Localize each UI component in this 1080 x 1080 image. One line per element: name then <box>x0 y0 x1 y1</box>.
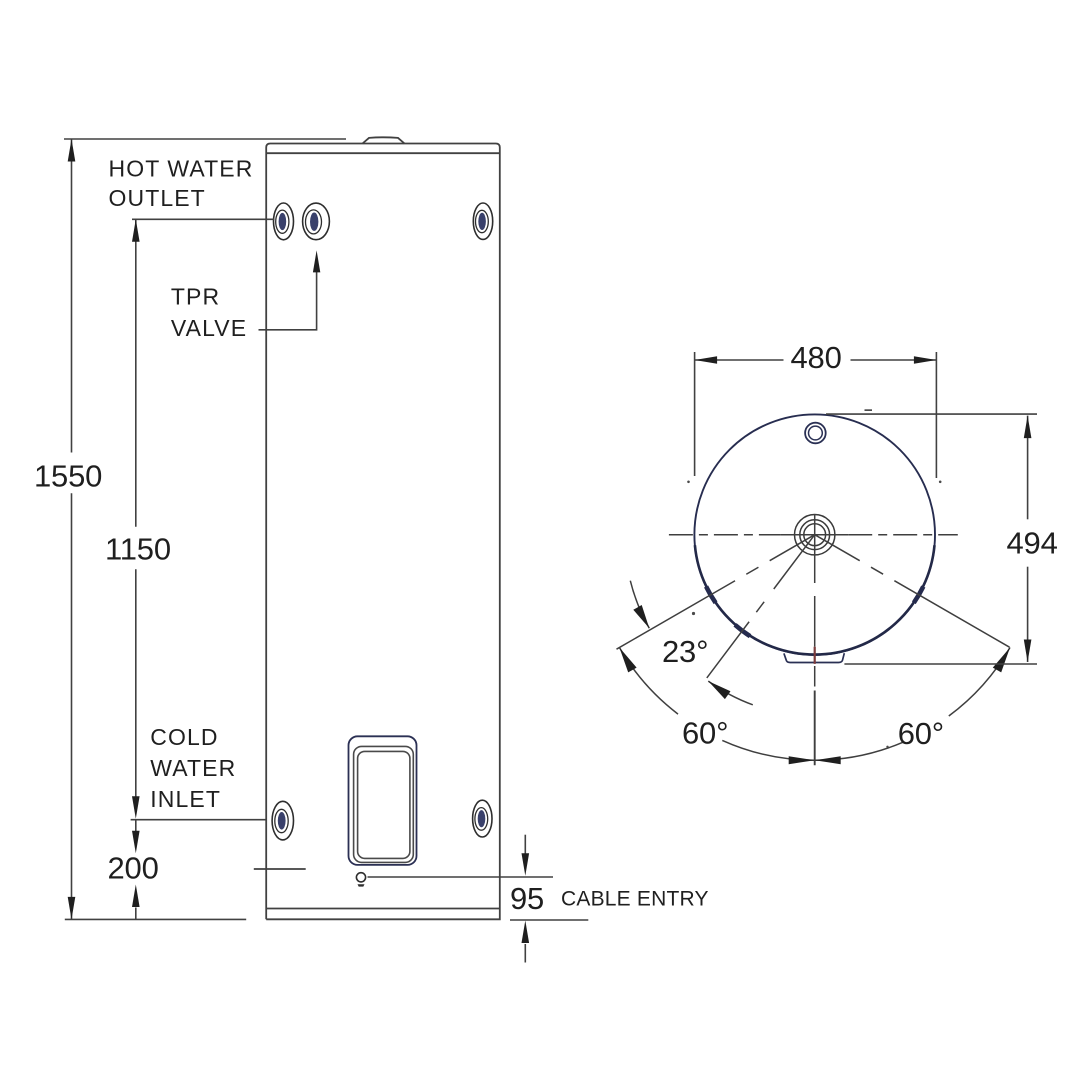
thicker lower rim arc <box>695 545 935 654</box>
cold water inlet leader <box>131 819 267 821</box>
right 60 deg line (R1) <box>815 535 1010 648</box>
svg-text:TPR: TPR <box>171 283 220 309</box>
tank bottom rim line <box>266 908 500 910</box>
480 extension lines <box>694 352 696 476</box>
anode line 23 deg (L2) <box>707 535 815 678</box>
vertex arrow right <box>815 756 841 764</box>
23 arc arrow upper <box>633 605 649 628</box>
base skirt bump <box>784 653 844 662</box>
1150 bottom arrow <box>132 796 140 819</box>
base extension right of tank <box>510 919 588 921</box>
23 arc outside upper <box>630 581 649 629</box>
svg-text:494: 494 <box>1007 525 1058 560</box>
bottom right fitting F5 <box>473 800 492 837</box>
svg-text:COLD: COLD <box>150 724 218 750</box>
arrow at right 60 line end <box>993 648 1010 673</box>
TPR arrow <box>313 250 320 272</box>
svg-text:95: 95 <box>510 881 544 916</box>
svg-text:HOT WATER: HOT WATER <box>109 156 254 182</box>
vertical crosshair through center <box>814 514 816 583</box>
left 60 arc upper segment <box>619 648 678 715</box>
svg-text:CABLE ENTRY: CABLE ENTRY <box>561 888 709 911</box>
maroon tick at skirt center <box>814 647 816 664</box>
svg-text:1150: 1150 <box>105 532 171 567</box>
fitting boss on circle at left 60 deg <box>706 587 716 603</box>
480 left arrow <box>695 356 718 364</box>
fitting boss on circle at 23 deg line <box>735 625 750 636</box>
200 upper arrow (points down to text) <box>132 831 140 854</box>
fitting boss on circle at right 60 deg <box>914 587 924 603</box>
cable entry symbol <box>356 873 553 887</box>
svg-text:1550: 1550 <box>34 459 102 494</box>
svg-text:23°: 23° <box>662 634 708 669</box>
CAD stray dots / dash specks <box>687 409 941 748</box>
vertex arrow left <box>789 756 815 764</box>
tank top seam line <box>266 152 500 154</box>
angle dimension arcs <box>619 581 1010 761</box>
svg-text:60°: 60° <box>682 716 728 751</box>
TPR valve fitting F2 <box>303 203 330 240</box>
494 bottom arrow <box>1024 640 1032 663</box>
1150 dimension line <box>135 219 137 526</box>
95 bottom arrow <box>522 921 530 944</box>
vertical centerline below circle <box>814 596 816 647</box>
95 top arrow <box>522 853 530 876</box>
left 60 deg line (L1) <box>617 535 815 650</box>
95 top arrow stem <box>524 835 526 854</box>
anode weld tick on left edge <box>254 868 306 870</box>
1550 top arrow <box>68 139 76 162</box>
svg-text:INLET: INLET <box>150 786 221 812</box>
494 extension lines <box>826 413 1037 415</box>
cold water inlet fitting F4 <box>272 801 293 840</box>
1550 top extension line <box>64 138 346 140</box>
svg-text:OUTLET: OUTLET <box>109 185 206 211</box>
480 dimension <box>695 352 937 478</box>
tank top-view circle <box>694 414 935 662</box>
1550 dimension line <box>71 139 73 453</box>
tank top TPR dome bump <box>363 137 405 143</box>
1150 top arrow <box>132 219 140 242</box>
left 60 arc lower segment <box>722 740 814 760</box>
hot water outlet fitting F1 <box>274 203 294 240</box>
23 arc arrow lower <box>708 681 730 699</box>
svg-text:60°: 60° <box>898 716 944 751</box>
tank outline <box>266 144 500 920</box>
hot water outlet leader <box>132 218 275 220</box>
arrow at left 60 line end <box>619 648 636 673</box>
TPR valve leader <box>259 270 317 330</box>
right 60 arc lower segment <box>815 742 903 760</box>
top view dimension texts <box>662 340 1058 751</box>
494 top arrow <box>1024 416 1032 439</box>
top small fitting circle <box>805 423 826 444</box>
200 dim stems <box>135 820 137 831</box>
horizontal centerline <box>669 534 781 536</box>
right 60 arc upper segment <box>949 648 1010 717</box>
95 bottom arrow stem <box>524 944 526 963</box>
svg-text:480: 480 <box>791 340 842 375</box>
svg-text:200: 200 <box>108 850 159 885</box>
center fitting rings <box>795 515 835 555</box>
centerlines <box>617 514 1010 765</box>
base extension line <box>65 918 246 920</box>
top right fitting F3 <box>473 203 492 239</box>
element access cover <box>349 736 417 865</box>
200 lower arrow (points up to text) <box>132 885 140 908</box>
cable entry leader <box>368 876 554 878</box>
494 dimension <box>826 414 1037 664</box>
svg-text:VALVE: VALVE <box>171 315 247 341</box>
480 right arrow <box>914 356 937 364</box>
arc arrowheads <box>619 605 1010 764</box>
svg-text:WATER: WATER <box>150 755 236 781</box>
23 arc outside lower <box>708 681 753 705</box>
1550 bottom arrow <box>68 897 76 920</box>
